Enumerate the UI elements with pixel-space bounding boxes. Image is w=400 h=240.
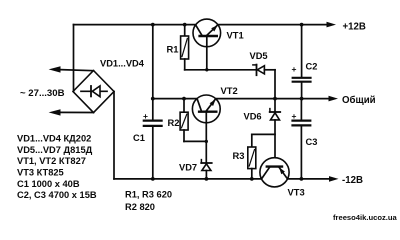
svg-text:R1: R1 <box>167 43 179 54</box>
arrowhead common <box>329 96 339 102</box>
zener VD6 <box>270 109 281 167</box>
junction dot R3 bottom <box>250 177 254 181</box>
parts list column 1 <box>17 134 97 201</box>
wire: middle rail right segment (common out) <box>216 98 330 100</box>
svg-text:R2 820: R2 820 <box>125 202 155 212</box>
bridge rectifier VD1...VD4 <box>73 71 114 113</box>
junction dot bottom rail C1 <box>151 177 155 181</box>
junction dot VD7 bottom <box>205 177 209 181</box>
transistor VT3 <box>260 158 289 187</box>
svg-text:freeso4ik.ucoz.ua: freeso4ik.ucoz.ua <box>333 213 398 222</box>
junction dot VT1 base <box>205 68 208 71</box>
wire: raw minus riser from bridge right corner to bottom rail <box>113 92 115 179</box>
svg-text:-12В: -12В <box>342 175 363 186</box>
svg-text:VD6: VD6 <box>244 111 262 121</box>
junction dot C2 top <box>300 23 304 27</box>
wire: bottom rail right segment (-12V out) <box>287 178 330 180</box>
svg-text:+12В: +12В <box>343 22 366 33</box>
svg-text:VD7: VD7 <box>179 162 197 172</box>
arrowhead +12V <box>327 22 337 28</box>
junction dot R1 top <box>183 23 187 27</box>
wire: riser from bridge left corner to top rail <box>73 25 75 92</box>
junction dot R2 top <box>182 97 186 101</box>
junction dot VT2 base <box>205 140 208 143</box>
wire: raw+ vertical to C1 (x=152.8) <box>152 25 154 120</box>
wire: bottom rail left segment (raw -) <box>114 178 262 180</box>
junction dot middle rail x=152.8 <box>151 97 155 101</box>
wire: VT2 base line from R2 <box>184 140 206 142</box>
svg-text:+: + <box>292 111 297 121</box>
svg-text:VD5: VD5 <box>250 51 268 61</box>
svg-text:C2, C3 4700 х 15В: C2, C3 4700 х 15В <box>17 190 97 200</box>
AC input wire upper with arrow <box>49 66 94 72</box>
AC input wire lower with arrow <box>49 109 94 115</box>
svg-text:~ 27...30В: ~ 27...30В <box>20 88 65 99</box>
resistor R3 <box>248 134 256 179</box>
svg-text:C3: C3 <box>306 137 318 147</box>
svg-text:VD5...VD7 Д815Д: VD5...VD7 Д815Д <box>17 145 93 155</box>
svg-text:R2: R2 <box>168 117 180 128</box>
junction dot C2 bottom / common <box>300 97 304 101</box>
svg-text:+: + <box>292 64 297 74</box>
arrowhead -12V <box>329 176 339 182</box>
svg-text:VD1...VD4 КД202: VD1...VD4 КД202 <box>17 134 91 144</box>
resistor R2 <box>180 99 188 142</box>
wire: middle rail left segment <box>153 98 197 100</box>
junction dot C3 bottom <box>300 177 304 181</box>
svg-text:R1, R3 620: R1, R3 620 <box>125 190 172 200</box>
svg-text:VD1...VD4: VD1...VD4 <box>100 59 145 69</box>
capacitor C2 <box>293 25 311 99</box>
wire: top rail left segment (raw +) <box>74 24 196 26</box>
wire: top rail right segment (+12V out) <box>218 24 328 26</box>
transistor VT2 <box>192 95 220 163</box>
svg-text:C1 1000 х 40В: C1 1000 х 40В <box>17 179 80 189</box>
junction dot common rail x=275 <box>273 97 277 101</box>
zener VD7 <box>201 160 212 179</box>
parts list resistors <box>125 190 172 213</box>
svg-text:VT1, VT2 КТ827: VT1, VT2 КТ827 <box>17 156 86 166</box>
zener VD5 <box>253 65 275 76</box>
svg-text:VT2: VT2 <box>221 85 238 96</box>
wire: VT1 base line <box>185 69 257 71</box>
svg-text:VT3 КТ825: VT3 КТ825 <box>17 168 64 178</box>
svg-text:VT3: VT3 <box>288 187 305 198</box>
svg-text:Общий: Общий <box>342 95 376 106</box>
capacitor C3 <box>293 99 311 179</box>
wire: R3 branch from VD6/VT3 base node <box>252 133 275 135</box>
svg-text:+: + <box>143 111 148 121</box>
capacitor C1 <box>144 121 162 179</box>
svg-text:C2: C2 <box>306 62 318 72</box>
wire: VD5 down to common rail <box>274 70 276 112</box>
junction dot top rail x=152.8 <box>151 23 155 27</box>
svg-text:R3: R3 <box>233 150 245 161</box>
svg-text:VT1: VT1 <box>227 30 244 41</box>
resistor R1 <box>181 25 189 70</box>
transistor VT1 <box>193 19 221 70</box>
svg-text:C1: C1 <box>133 133 145 143</box>
